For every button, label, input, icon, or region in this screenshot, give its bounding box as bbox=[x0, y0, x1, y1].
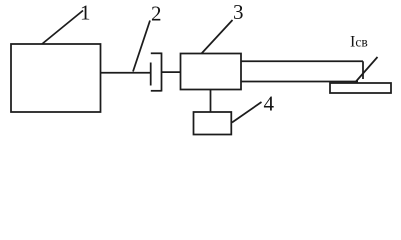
modulator 2 bracket top flange bbox=[151, 52, 162, 54]
modulator 2 bracket plate bbox=[161, 53, 163, 92]
light-guide rod bottom edge bbox=[241, 81, 358, 83]
box 4 bbox=[194, 112, 232, 135]
leader line to label 3 bbox=[202, 20, 233, 54]
svg-text:Iсв: Iсв bbox=[350, 34, 368, 51]
light-guide rod right end bbox=[362, 61, 364, 79]
light-guide rod top edge bbox=[241, 60, 363, 62]
leader line to label 2 bbox=[133, 21, 150, 72]
photodetector plate bbox=[330, 83, 391, 93]
svg-text:3: 3 bbox=[233, 0, 244, 24]
wire from box 1 to modulator 2 bbox=[101, 72, 151, 74]
modulator 2 bracket bottom flange bbox=[151, 90, 162, 92]
box 1 (laser source) bbox=[11, 44, 101, 112]
wire from modulator 2 to box 3 bbox=[162, 71, 181, 73]
connector from box 3 down to box 4 bbox=[210, 90, 212, 113]
leader line to label 4 bbox=[232, 102, 262, 123]
tilted mirror (Iсв pointer) bbox=[356, 57, 378, 82]
leader line to label 1 bbox=[42, 11, 83, 45]
box 3 bbox=[181, 54, 242, 90]
svg-text:2: 2 bbox=[151, 2, 162, 26]
modulator 2 short plate bbox=[150, 63, 152, 86]
svg-text:4: 4 bbox=[264, 92, 275, 116]
svg-text:1: 1 bbox=[80, 1, 91, 25]
